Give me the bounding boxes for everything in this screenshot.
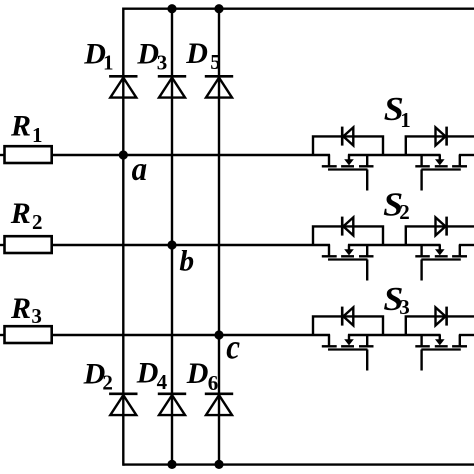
phase b wire: S2 inter-mosfet link bbox=[348, 244, 441, 246]
svg-text:D: D bbox=[136, 356, 159, 389]
diode D6 cathode bar bbox=[205, 392, 233, 395]
diode D3 triangle bbox=[159, 78, 185, 98]
phase c wire: S3 inter-mosfet link bbox=[348, 334, 441, 336]
svg-text:R: R bbox=[10, 292, 31, 325]
diode D4 triangle bbox=[159, 395, 185, 415]
svg-text:1: 1 bbox=[400, 108, 411, 132]
switch S2 right MOSFET bbox=[406, 217, 474, 281]
top DC rail bbox=[123, 7, 474, 9]
vertical bus of D1/D2 bbox=[122, 8, 124, 466]
switch S3 left MOSFET bbox=[313, 307, 383, 371]
diode D2 triangle bbox=[110, 395, 136, 415]
svg-text:2: 2 bbox=[32, 210, 43, 234]
phase a wire: R1 to switch S1 bbox=[52, 154, 331, 156]
phase c wire: R3 to switch S3 bbox=[52, 334, 331, 336]
bottom DC rail bbox=[123, 463, 474, 465]
vertical bus of D5/D6 bbox=[218, 9, 220, 465]
svg-text:3: 3 bbox=[157, 50, 168, 74]
switch S2 left MOSFET bbox=[313, 217, 383, 281]
switch S3 right MOSFET bbox=[406, 307, 474, 371]
svg-text:1: 1 bbox=[32, 123, 43, 147]
diode D5 cathode bar bbox=[205, 75, 233, 78]
svg-text:R: R bbox=[10, 110, 31, 143]
resistor R2 body bbox=[5, 236, 52, 253]
junction dot node a bbox=[119, 150, 128, 159]
svg-text:2: 2 bbox=[102, 370, 113, 394]
phase a wire: resistor stub bbox=[0, 154, 5, 156]
svg-text:4: 4 bbox=[157, 370, 168, 394]
junction dot node b bbox=[167, 240, 176, 249]
junction dot node c bbox=[214, 330, 223, 339]
junction dot top rail / bus D5 bbox=[214, 4, 223, 13]
junction dot bottom rail / bus D4 bbox=[167, 460, 176, 469]
phase a wire: S1 inter-mosfet link bbox=[348, 154, 441, 156]
svg-text:D: D bbox=[185, 37, 208, 70]
diode D3 cathode bar bbox=[158, 75, 186, 78]
diode D1 triangle bbox=[110, 78, 136, 98]
svg-text:3: 3 bbox=[31, 304, 42, 328]
diode D1 cathode bar bbox=[109, 75, 137, 78]
diode D4 cathode bar bbox=[158, 392, 186, 395]
vertical bus of D3/D4 bbox=[171, 9, 173, 465]
resistor R3 body bbox=[5, 326, 52, 343]
resistor R1 body bbox=[5, 146, 52, 163]
svg-text:R: R bbox=[10, 197, 31, 230]
svg-text:2: 2 bbox=[399, 200, 410, 224]
svg-text:6: 6 bbox=[208, 371, 219, 395]
diode D6 triangle bbox=[206, 395, 232, 415]
phase b wire: resistor stub bbox=[0, 244, 5, 246]
switch S1 right MOSFET bbox=[406, 127, 474, 191]
phase c wire: S3 right terminal bbox=[459, 334, 474, 336]
svg-text:3: 3 bbox=[399, 295, 410, 319]
svg-text:b: b bbox=[179, 245, 194, 277]
svg-text:a: a bbox=[132, 151, 148, 188]
junction dot top rail / bus D3 bbox=[167, 4, 176, 13]
svg-text:D: D bbox=[136, 38, 159, 71]
junction dot bottom rail / bus D6 bbox=[214, 460, 223, 469]
switch S1 left MOSFET bbox=[313, 127, 383, 191]
svg-text:c: c bbox=[226, 328, 240, 367]
phase c wire: resistor stub bbox=[0, 334, 5, 336]
phase b wire: R2 to switch S2 bbox=[52, 244, 331, 246]
phase a wire: S1 right terminal bbox=[459, 154, 474, 156]
phase b wire: S2 right terminal bbox=[459, 244, 474, 246]
diode D2 cathode bar bbox=[109, 392, 137, 395]
svg-text:5: 5 bbox=[210, 50, 221, 74]
svg-text:D: D bbox=[186, 357, 209, 390]
diode D5 triangle bbox=[206, 78, 232, 98]
svg-text:1: 1 bbox=[103, 50, 114, 74]
